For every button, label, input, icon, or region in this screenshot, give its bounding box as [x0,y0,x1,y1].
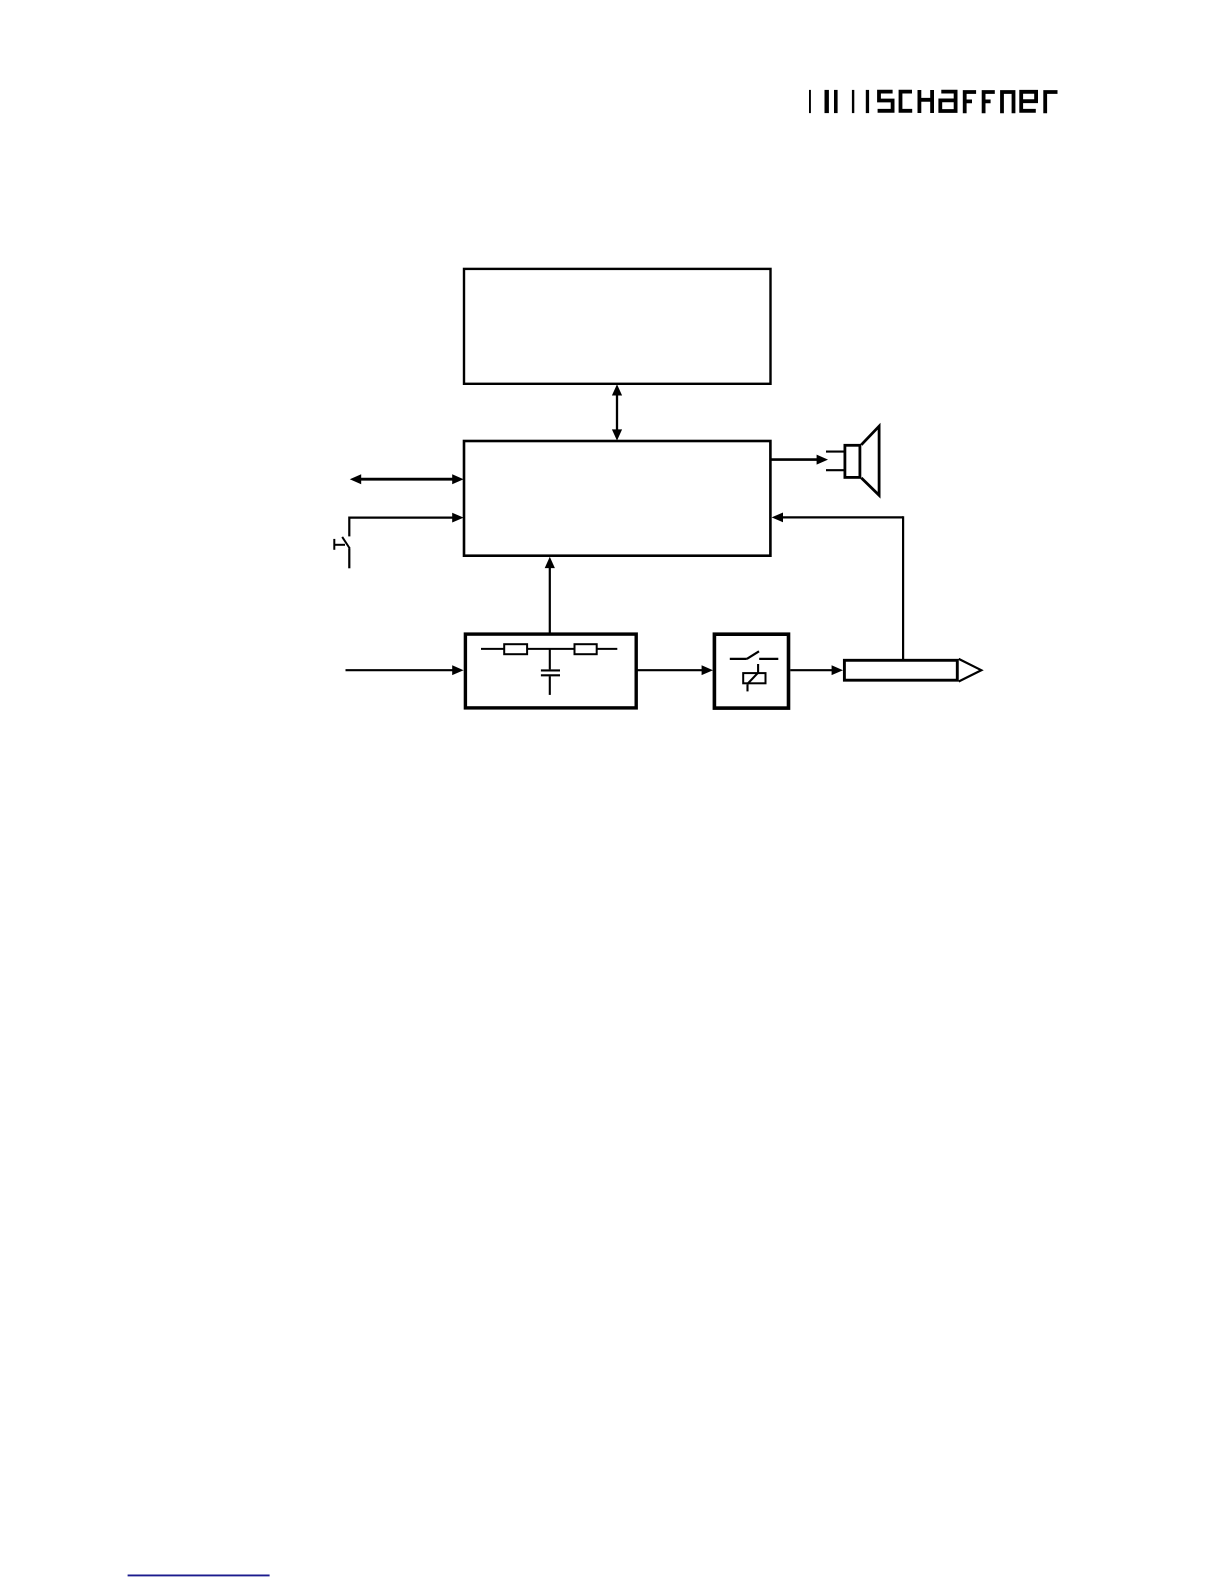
wire: vertical lead down to switch [348,517,350,537]
block box2 (main control unit) [464,441,770,556]
wire: vertical feedback lead down to probe [902,516,904,659]
mains filter box [465,634,636,708]
wire: bidirectional horizontal arrow at left of box2 [350,474,464,484]
wire: mains input arrow into filter [346,665,464,675]
probe body [844,660,957,680]
footer rule [128,1574,270,1576]
wire: arrow filter to relay [638,665,714,675]
wire: arrow box2 to loudspeaker [771,455,828,465]
Schaffner logo wordmark "schaffner" [878,90,1058,113]
Schaffner logo bars [809,90,869,113]
loudspeaker LS horn [861,426,879,495]
loudspeaker LS body [845,445,860,477]
resistor R2 [575,644,597,654]
probe tip [959,659,982,682]
resistor R1 [504,644,527,654]
loudspeaker LS terminals [826,452,844,471]
wire: lead below switch [348,548,350,568]
wire: filter internal series line [481,648,617,650]
relay K1 coil [743,664,765,691]
relay K1 contact [730,651,779,659]
wire: bidirectional arrow box1-box2 [612,384,622,440]
wire: arrow filter up to box2 [545,557,555,633]
capacitor C1 [541,649,560,695]
wire: switch input arrow into box2 [349,513,463,523]
relay box [714,634,788,708]
block box1 (upper unit) [464,269,771,384]
switch S1 (pushbutton) [334,537,350,550]
wire: feedback arrow from probe into box2 [772,513,904,523]
wire: arrow relay to probe [790,665,843,675]
